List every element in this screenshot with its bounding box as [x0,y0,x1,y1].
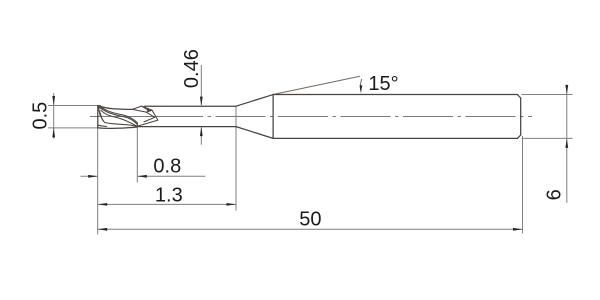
neck top edge [145,105,236,107]
heel runout line [105,123,137,127]
arrow: 50 right [513,228,523,231]
extension line: 0.5 top [48,105,101,107]
flag accent line [142,107,147,110]
svg-text:0.8: 0.8 [153,156,181,178]
svg-text:0.5: 0.5 [29,102,51,130]
gash runout zigzag [144,112,155,122]
svg-text:1.3: 1.3 [155,184,183,206]
dimension line: 0.8 left tail [81,175,98,177]
arrow: 0.5 top (down) [52,96,55,106]
extension line: taper start (1.3) [235,106,237,210]
extension line: shank right end (50) [522,136,524,234]
extension line: 0.5 bottom [48,127,101,129]
flute flag (second flute land) [132,106,152,112]
tip top land edge [98,106,133,110]
dimension line: 0.8 right tail [137,175,205,177]
shank chamfer top [517,95,520,98]
dimension line: 6 vertical [566,85,568,203]
arrow: 1.3 left [98,203,108,206]
shank chamfer bottom [517,135,520,138]
taper-shank junction [272,95,274,139]
helix land edge lower [99,108,137,125]
extension line: flute end (0.8) [136,128,138,183]
flute end vertical edge [136,123,138,127]
angle arrow arc tail [360,79,361,91]
svg-text:15°: 15° [368,73,398,95]
helix land edge upper [98,106,137,123]
shank right edge [520,98,522,135]
dimension line: 0.46 upper [200,65,202,105]
dimension line: 0.46 lower [200,128,202,145]
dimension line: 0.5 vertical [53,93,55,139]
dimension line: 1.3 [98,203,236,205]
extension line: 6 top [522,94,573,96]
flag corner dark wedge [146,109,153,112]
arrow: 50 left [98,228,108,231]
bottom flute runout curve [98,127,138,128]
taper bottom edge [236,127,273,139]
face heel short line [98,125,107,126]
arrow: 0.46 bottom (up) [200,127,203,137]
claw inner curve [101,114,104,121]
centerline chain part [203,115,532,117]
tip face edge [97,106,99,128]
svg-text:0.46: 0.46 [181,49,203,88]
flute face curve [101,110,137,126]
centerline (chain line) [90,115,203,117]
arrow: 6 bottom (up) [565,138,568,148]
neck bottom edge [138,126,236,128]
shank top edge [273,94,517,96]
shank bottom edge [273,137,517,139]
arrow: 0.46 top (down) [200,97,203,107]
dimension line: 50 [98,228,523,230]
end tooth edge [98,106,100,116]
svg-text:50: 50 [299,209,321,231]
arrow: 1.3 right [227,203,237,206]
gash edge to flute end [137,110,158,126]
arrow: 0.5 bottom (up) [52,128,55,137]
claw outer curve [100,111,105,122]
arrow: angle (down) [360,85,363,93]
arrow: 0.8 right (left-pointing) [137,175,147,178]
extension line: 6 bottom [522,137,573,139]
arrow: 6 top (down) [565,85,568,95]
extension line: face (down to 50 dim) [97,129,99,235]
arrow: 0.8 left (right-pointing) [88,175,98,178]
svg-text:6: 6 [543,189,565,200]
15 degree reference line [273,76,360,94]
taper top edge [236,95,273,107]
